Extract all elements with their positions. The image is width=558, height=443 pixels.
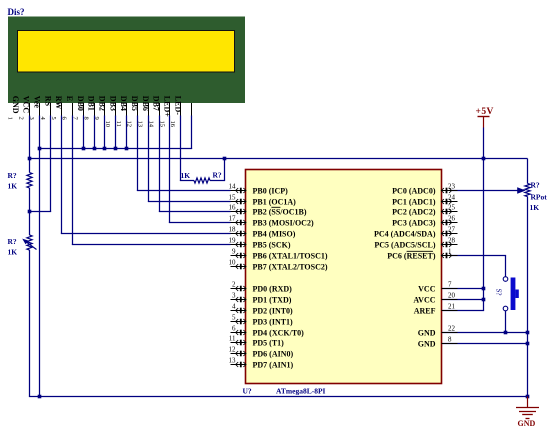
svg-text:Dis?: Dis? (8, 7, 25, 17)
wire LCD pin 11 to MCU (137, 190, 231, 192)
junction button GND (504, 331, 508, 335)
MCU pin 24 PC1 (442, 201, 458, 203)
button S? top contact (503, 277, 508, 282)
svg-text:1K: 1K (8, 248, 18, 257)
resistor R? 1K contrast upper (29, 159, 31, 173)
svg-text:16: 16 (229, 204, 237, 212)
button S? actuator (511, 278, 516, 311)
MCU pin 22 GND (442, 332, 458, 334)
svg-text:LED-: LED- (173, 96, 182, 115)
wire LCD pin 5 to MCU (72, 244, 231, 246)
junction pin7 row1 (93, 147, 97, 151)
svg-text:20: 20 (448, 292, 456, 300)
resistor R? 1K LED backlight (194, 178, 210, 183)
svg-text:11: 11 (229, 335, 236, 343)
svg-text:17: 17 (229, 215, 237, 223)
svg-text:PD0 (RXD): PD0 (RXD) (253, 284, 293, 293)
svg-text:5: 5 (232, 314, 236, 322)
LCD pin 5 wire (72, 103, 74, 116)
svg-text:PC1 (ADC1): PC1 (ADC1) (392, 197, 436, 206)
svg-text:DB2: DB2 (98, 96, 107, 111)
svg-text:Vee: Vee (32, 96, 41, 109)
wire +5V rail down to VCC AVCC AREF (483, 159, 485, 311)
svg-text:PB6 (XTAL1/TOSC1): PB6 (XTAL1/TOSC1) (253, 251, 328, 260)
svg-text:PD4 (XCK/T0): PD4 (XCK/T0) (253, 328, 305, 337)
wire LED resistor to +5V row (224, 159, 226, 181)
svg-text:AVCC: AVCC (413, 295, 435, 304)
MCU pin 3 PD1 (231, 299, 246, 301)
wire +5V to row2 (483, 128, 485, 159)
svg-text:LED+: LED+ (163, 96, 172, 117)
svg-text:PC5 (ADC5/SCL): PC5 (ADC5/SCL) (374, 240, 435, 249)
svg-text:7: 7 (448, 281, 452, 289)
svg-text:16: 16 (169, 121, 176, 128)
svg-text:26: 26 (448, 215, 456, 223)
svg-text:24: 24 (448, 194, 456, 202)
svg-text:PD2 (INT0): PD2 (INT0) (253, 306, 294, 315)
LCD pin 16 wire (191, 103, 193, 116)
junction GND8 rail (526, 342, 530, 346)
MCU pin 23 PC0 (442, 190, 458, 192)
svg-text:R?: R? (8, 237, 17, 246)
MCU pin 12 PD6 (231, 353, 246, 355)
svg-text:PD6 (AIN0): PD6 (AIN0) (253, 349, 294, 358)
junction Vee node (28, 210, 32, 214)
svg-text:3: 3 (232, 292, 236, 300)
overline SS on PB2 (271, 206, 280, 208)
svg-text:S?: S? (495, 289, 503, 296)
MCU pin 4 PD2 (231, 310, 246, 312)
svg-text:PC0 (ADC0): PC0 (ADC0) (392, 186, 436, 195)
MCU pin 28 PC5 (442, 244, 458, 246)
MCU pin 14 PB0 (231, 190, 246, 192)
wire GND pin22 (442, 332, 528, 334)
junction pin6 row1 (82, 147, 86, 151)
svg-text:R?: R? (531, 181, 540, 190)
ground symbol GND (527, 397, 529, 408)
svg-text:PB2 (SS/OC1B): PB2 (SS/OC1B) (253, 207, 307, 216)
MCU pin 15 PB1 (231, 201, 246, 203)
MCU pin 9 PB6 (231, 255, 246, 257)
svg-text:1K: 1K (8, 182, 18, 191)
wire AVCC pin20 (442, 299, 485, 301)
LCD pin 8 wire (104, 103, 106, 116)
svg-text:PD5 (T1): PD5 (T1) (253, 338, 285, 347)
wire button to GND row (505, 311, 507, 333)
svg-text:RPot: RPot (531, 193, 548, 202)
GND row under LCD (40, 148, 193, 150)
MCU pin 5 PD3 (231, 321, 246, 323)
svg-text:1: 1 (7, 117, 14, 120)
wire GND pin8 (442, 343, 528, 345)
wire LCD pin 4 to MCU (61, 233, 231, 235)
svg-text:PB4 (MISO): PB4 (MISO) (253, 229, 296, 238)
MCU pin 11 PD5 (231, 342, 246, 344)
svg-text:GND: GND (418, 328, 436, 337)
wire VCC pin7 (442, 288, 485, 290)
MCU pin 21 AREF (442, 310, 458, 312)
svg-text:PC4 (ADC4/SDA): PC4 (ADC4/SDA) (374, 229, 436, 238)
svg-text:2: 2 (17, 117, 24, 120)
wire Vee node to LCD pin3 (30, 211, 52, 213)
LCD pin 11 wire (137, 103, 139, 116)
svg-text:15: 15 (229, 194, 237, 202)
junction pin1 row2 (28, 157, 32, 161)
svg-text:PC6 (RESET): PC6 (RESET) (387, 251, 436, 260)
MCU pin 10 PB7 (231, 266, 246, 268)
junction +5V supply row2 (482, 157, 486, 161)
svg-text:PB5 (SCK): PB5 (SCK) (253, 240, 291, 249)
LCD display module Dis? (8, 17, 245, 104)
MCU pin 16 PB2 (231, 211, 246, 213)
svg-text:DB3: DB3 (108, 96, 117, 111)
svg-text:6: 6 (232, 325, 236, 333)
svg-text:9: 9 (232, 248, 236, 256)
+5V row under LCD (29, 158, 528, 160)
button S? bottom contact (503, 306, 508, 311)
svg-text:PB1 (OC1A): PB1 (OC1A) (253, 197, 297, 206)
svg-text:PD1 (TXD): PD1 (TXD) (253, 295, 292, 304)
junction pin8 row1 (103, 147, 107, 151)
LCD pin 15 wire (180, 103, 182, 116)
LCD pin 1 wire (29, 103, 31, 116)
svg-text:8: 8 (448, 336, 452, 344)
svg-text:25: 25 (448, 204, 456, 212)
junction GND22 rail (526, 331, 530, 335)
LCD pin 14 wire (169, 103, 171, 116)
variable resistor R? 1K contrast lower (29, 211, 31, 235)
MCU pin 2 PD0 (231, 288, 246, 290)
MCU pin 7 VCC (442, 288, 458, 290)
LCD pin 3 wire (50, 103, 52, 116)
svg-text:22: 22 (448, 325, 456, 333)
svg-text:12: 12 (229, 346, 237, 354)
MCU pin 13 PD7 (231, 364, 246, 366)
MCU pin 6 PD4 (231, 332, 246, 334)
overline RESET on PC6 (407, 250, 433, 252)
svg-text:27: 27 (448, 226, 456, 234)
wire PC6 RESET to button (452, 255, 506, 257)
svg-text:28: 28 (448, 237, 456, 245)
svg-text:PD7 (AIN1): PD7 (AIN1) (253, 360, 294, 369)
svg-text:PB3 (MOSI/OC2): PB3 (MOSI/OC2) (253, 218, 314, 227)
svg-text:2: 2 (232, 281, 236, 289)
MCU pin 1 PC6 (442, 255, 458, 257)
LCD pin 12 wire (148, 103, 150, 116)
svg-text:19: 19 (229, 237, 237, 245)
junction LED resistor row2 (223, 157, 227, 161)
svg-text:VCC: VCC (418, 284, 436, 293)
MCU pin 27 PC4 (442, 233, 458, 235)
wire LCD pin 14 to MCU (169, 222, 231, 224)
MCU pin 20 AVCC (442, 299, 458, 301)
right +5V rail wire (527, 159, 529, 184)
svg-text:PD3 (INT1): PD3 (INT1) (253, 317, 294, 326)
wire LED+ down-right (180, 180, 194, 182)
bottom GND rail wire (29, 396, 528, 398)
svg-text:PC3 (ADC3): PC3 (ADC3) (392, 218, 436, 227)
svg-text:GND: GND (418, 339, 436, 348)
MCU pin 17 PB3 (231, 222, 246, 224)
svg-text:10: 10 (229, 259, 237, 267)
svg-text:U?: U? (243, 387, 252, 396)
svg-text:21: 21 (448, 303, 456, 311)
MCU pin 26 PC3 (442, 222, 458, 224)
svg-text:14: 14 (229, 183, 237, 191)
wire PC0 ADC0 to pot wiper (452, 190, 519, 192)
LCD pin 2 wire (39, 103, 41, 116)
svg-text:1K: 1K (530, 203, 540, 212)
svg-text:GND: GND (11, 96, 20, 114)
LCD pin 7 wire (94, 103, 96, 116)
wire AREF pin21 (442, 310, 485, 312)
junction pin2 row1 (38, 147, 42, 151)
svg-text:1: 1 (448, 248, 452, 256)
MCU pin 8 GND (442, 343, 458, 345)
potentiometer R? RPot 1K (525, 184, 530, 197)
svg-text:1K: 1K (181, 171, 191, 180)
MCU U? ATmega8L-8PI body (246, 170, 442, 384)
variable resistor arrow (25, 241, 37, 250)
LCD pin 9 wire (115, 103, 117, 116)
svg-text:R?: R? (8, 171, 17, 180)
wire LCD pin 13 to MCU (159, 211, 231, 213)
svg-text:4: 4 (232, 303, 236, 311)
junction pin2 bottom rail (38, 395, 42, 399)
svg-text:23: 23 (448, 183, 456, 191)
MCU pin 18 PB4 (231, 233, 246, 235)
wire LCD pin 12 to MCU (148, 201, 231, 203)
svg-text:R?: R? (213, 171, 222, 180)
LCD screen area (18, 31, 235, 73)
junction pin10 row1 (125, 147, 129, 151)
svg-text:ATmega8L-8PI: ATmega8L-8PI (276, 387, 326, 396)
svg-text:AREF: AREF (414, 306, 436, 315)
MCU pin 25 PC2 (442, 211, 458, 213)
LCD pin 6 wire (83, 103, 85, 116)
svg-text:PB7 (XTAL2/TOSC2): PB7 (XTAL2/TOSC2) (253, 262, 328, 271)
svg-text:13: 13 (229, 357, 237, 365)
junction AVCC (482, 298, 486, 302)
svg-text:PB0 (ICP): PB0 (ICP) (253, 186, 289, 195)
svg-text:18: 18 (229, 226, 237, 234)
LCD pin 4 wire (61, 103, 63, 116)
junction rail bottom right (526, 395, 530, 399)
LCD pin 13 wire (159, 103, 161, 116)
junction pin9 row1 (114, 147, 118, 151)
pot wiper arrow (517, 187, 526, 193)
LCD pin 10 wire (126, 103, 128, 116)
MCU pin 19 PB5 (231, 244, 246, 246)
svg-text:+5V: +5V (476, 107, 494, 117)
svg-text:PC2 (ADC2): PC2 (ADC2) (392, 207, 436, 216)
junction VCC (482, 287, 486, 291)
svg-text:E: E (65, 96, 74, 101)
svg-text:GND: GND (518, 419, 536, 428)
